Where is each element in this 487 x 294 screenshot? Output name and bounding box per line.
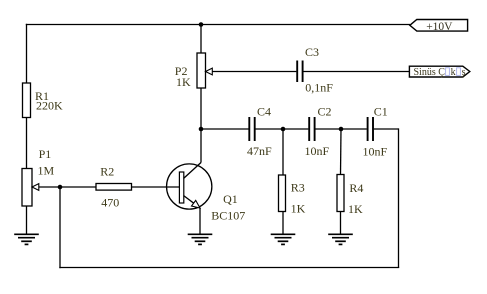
wire top rail to P2 xyxy=(200,25,202,54)
svg-text:C4: C4 xyxy=(257,104,271,118)
wire node B to C4 xyxy=(201,128,249,130)
wire right edge feedback xyxy=(398,128,400,267)
resistor R3 xyxy=(279,175,286,212)
svg-text:Sinüs Ç: Sinüs Ç xyxy=(414,67,446,78)
wire R4 to ground xyxy=(340,212,342,235)
wire left feedback up to node A xyxy=(59,187,61,268)
wire R2 to Q1 base xyxy=(132,186,180,188)
svg-text:220K: 220K xyxy=(36,98,63,112)
svg-text:1K: 1K xyxy=(291,202,306,216)
capacitor C4 xyxy=(249,117,254,141)
resistor R2 xyxy=(96,184,132,191)
wire bottom feedback xyxy=(59,267,399,269)
svg-text:47nF: 47nF xyxy=(247,144,272,158)
svg-text:10nF: 10nF xyxy=(363,144,388,158)
svg-text:C3: C3 xyxy=(305,45,319,59)
wire left rail upper xyxy=(26,24,28,84)
wire C3 to output flag xyxy=(303,71,409,73)
potentiometer P2 xyxy=(197,53,212,88)
wire C1 to right corner xyxy=(374,128,399,130)
ground below R4 xyxy=(328,234,353,244)
ground below P1 xyxy=(14,234,39,244)
wire R1 to P1 xyxy=(26,118,28,169)
wire R3 to ground xyxy=(282,212,284,235)
svg-text:470: 470 xyxy=(101,195,119,209)
transistor Q1 xyxy=(167,163,212,210)
capacitor C1 xyxy=(368,117,373,141)
wire P2 to collector node xyxy=(200,88,202,163)
wire P2 wiper to C3 xyxy=(212,71,296,73)
node D junction dot (R4 / C1) xyxy=(339,127,344,132)
node B junction dot (collector / C4) xyxy=(199,127,204,132)
svg-text:Q1: Q1 xyxy=(223,192,238,206)
wire node A to R2 xyxy=(60,186,96,188)
svg-text:ş: ş xyxy=(462,67,466,78)
wire Q1 emitter down xyxy=(199,208,201,235)
svg-text:R3: R3 xyxy=(291,180,305,194)
svg-text:P1: P1 xyxy=(39,147,52,161)
capacitor C3 xyxy=(297,61,302,83)
svg-text:1M: 1M xyxy=(38,163,55,177)
wire C2 to node D xyxy=(315,128,366,130)
svg-text:1K: 1K xyxy=(348,202,363,216)
svg-text:R2: R2 xyxy=(100,164,114,178)
capacitor C2 xyxy=(309,117,314,141)
svg-text:+10V: +10V xyxy=(426,21,453,33)
svg-text:R4: R4 xyxy=(349,181,363,195)
wire R3 top lead xyxy=(282,129,284,175)
resistor R1 xyxy=(23,83,31,118)
wire R4 top lead xyxy=(340,129,343,175)
svg-text:BC107: BC107 xyxy=(211,209,245,223)
wire P1 wiper to node A xyxy=(39,186,61,188)
svg-text:C1: C1 xyxy=(374,104,388,118)
wire top rail xyxy=(26,24,410,26)
svg-text:1K: 1K xyxy=(176,75,191,89)
power flag +10V xyxy=(410,20,468,32)
node A junction dot xyxy=(58,185,63,190)
resistor R4 xyxy=(337,175,344,212)
wire P1 to ground xyxy=(26,206,28,235)
ground below Q1 xyxy=(188,234,213,244)
ground below R3 xyxy=(271,234,296,244)
node C junction dot (R3 / C2) xyxy=(281,127,286,132)
svg-text:k: k xyxy=(451,67,456,78)
svg-text:10nF: 10nF xyxy=(305,144,330,158)
wire C4 to node C xyxy=(256,128,309,130)
svg-text:C2: C2 xyxy=(318,104,332,118)
output flag Sinus Cikis xyxy=(409,66,469,77)
junction dot top rail xyxy=(199,22,204,27)
potentiometer P1 xyxy=(22,169,39,207)
svg-text:0,1nF: 0,1nF xyxy=(305,80,333,94)
